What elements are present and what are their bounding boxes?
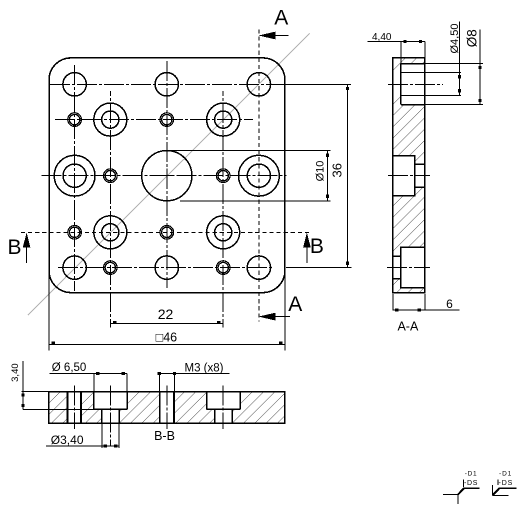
dimension 36 (right): [286, 83, 351, 85]
svg-text:36: 36: [330, 163, 345, 177]
dimension 22 (bottom): [110, 323, 223, 325]
centerline col1: [74, 65, 76, 291]
svg-text:A: A: [288, 293, 302, 316]
plate outline (front view): [49, 58, 285, 293]
svg-text:A: A: [274, 7, 288, 30]
svg-text:Ø4,50: Ø4,50: [449, 24, 461, 54]
section arrow B right: [303, 233, 311, 248]
B-B centerline col3: [166, 386, 168, 430]
dimension 3,40 (left): [22, 391, 49, 393]
svg-text:22: 22: [158, 306, 174, 322]
bottom hole edges: [401, 247, 425, 288]
top hole white: counterbore Ø8 from right: [401, 64, 425, 105]
col2 counterbore walls: [93, 392, 95, 410]
hole r4c4 (Ø6.5 counterbore + Ø3.4): [207, 216, 240, 249]
centerline row2: [55, 119, 253, 121]
svg-text:Ø8: Ø8: [464, 29, 479, 47]
svg-text:B-B: B-B: [154, 429, 175, 443]
hole r5c1 (Ø4.5): [63, 256, 86, 279]
centerline row3: [42, 175, 287, 177]
col1 M3 hole white: [66, 392, 82, 424]
hole r1c1 (Ø4.5): [63, 73, 86, 96]
svg-text:Ø10: Ø10: [314, 161, 326, 182]
hole r2c3 (M3 tapped): [162, 114, 172, 124]
svg-text:Ø 6,50: Ø 6,50: [52, 362, 87, 374]
centerline col2: [109, 91, 111, 328]
section A-A hatched body: [393, 58, 425, 293]
col4 counterbore walls: [206, 392, 208, 410]
svg-text:Ø3,40: Ø3,40: [51, 433, 84, 447]
bottom hole white: counterbore Ø8 from right: [401, 247, 425, 288]
hole r3c1 (Ø8 counterbore + Ø4.5): [54, 155, 95, 196]
hole r4c2 (Ø6.5 counterbore + Ø3.4): [94, 216, 127, 249]
hole r5c5 (Ø4.5): [247, 256, 270, 279]
dimension Ø4,50: [401, 71, 461, 73]
col1 M3 hole walls: [66, 392, 68, 424]
B-B centerline col4: [222, 386, 224, 430]
B-B centerline col2: [109, 386, 111, 446]
top hole edges: [401, 63, 425, 65]
hole r3c3 center (Ø10): [142, 151, 192, 201]
surface finish symbol 1: [443, 471, 480, 505]
dimension 6 (bottom): [392, 294, 394, 311]
surface finish symbol 2: [492, 470, 516, 495]
section arrow B left: [23, 233, 31, 248]
section arrow A top: [259, 32, 276, 40]
hole r4c1 (M3 tapped): [69, 227, 79, 237]
hole r3c4 (M3 tapped): [218, 171, 228, 181]
svg-text:-D1: -D1: [499, 470, 512, 477]
section A-A outline: [393, 58, 425, 293]
middle hole edges: [393, 156, 415, 196]
col3 M3 hole white: [159, 392, 175, 424]
section B-B hatched body: [49, 392, 285, 424]
hole r2c1 (M3 tapped): [69, 114, 79, 124]
col4 counterbore white: [207, 392, 240, 410]
section centerline top hole: [388, 83, 443, 85]
col3 M3 hole walls: [159, 392, 161, 424]
section centerline bottom hole: [387, 267, 430, 269]
section B-B outline: [49, 392, 285, 424]
hole r3c2 (M3 tapped): [105, 171, 115, 181]
dimension Ø3,40 (below): [101, 423, 103, 448]
svg-text:A-A: A-A: [397, 319, 419, 333]
hole r3c5 (Ø8 counterbore + Ø4.5): [239, 155, 280, 196]
svg-text:-D1: -D1: [465, 471, 478, 478]
diagonal centerline (grey): [28, 34, 310, 316]
hole r5c2 (M3 tapped): [105, 262, 115, 272]
hole r5c4 (M3 tapped): [218, 262, 228, 272]
svg-text:□46: □46: [156, 331, 178, 345]
hole r4c3 (M3 tapped): [162, 227, 172, 237]
hole r1c5 (Ø4.5): [247, 73, 270, 96]
dimension Ø10 (center hole): [170, 150, 330, 152]
dimension Ø8: [425, 63, 483, 65]
svg-text:-DS: -DS: [464, 480, 478, 487]
hole r5c3 (Ø4.5): [155, 256, 178, 279]
cutting line B-B (row4): [21, 231, 312, 233]
middle hole white: counterbore Ø8 from left: [393, 156, 415, 196]
dimension square-46 (bottom): [48, 272, 50, 350]
col2 counterbore white: [94, 392, 127, 410]
hole r2c2 (Ø6.5 counterbore + Ø3.4): [94, 103, 127, 136]
centerline row1: [50, 83, 287, 85]
hole r2c4 (Ø6.5 counterbore + Ø3.4): [207, 103, 240, 136]
centerline col4: [222, 91, 224, 328]
section arrow A bottom: [259, 313, 276, 321]
svg-text:6: 6: [446, 297, 453, 311]
section centerline middle hole: [388, 175, 430, 177]
centerline row5: [58, 267, 273, 269]
svg-text:M3 (x8): M3 (x8): [185, 363, 224, 375]
svg-text:-DS: -DS: [499, 480, 514, 487]
svg-text:B: B: [7, 236, 21, 259]
hole r1c3 (Ø4.5): [155, 73, 178, 96]
B-B centerline col1: [74, 386, 76, 430]
cutting line A-A (col5): [258, 29, 260, 321]
svg-text:3,40: 3,40: [10, 363, 21, 382]
centerline col3: [166, 61, 168, 288]
svg-text:B: B: [310, 235, 324, 258]
